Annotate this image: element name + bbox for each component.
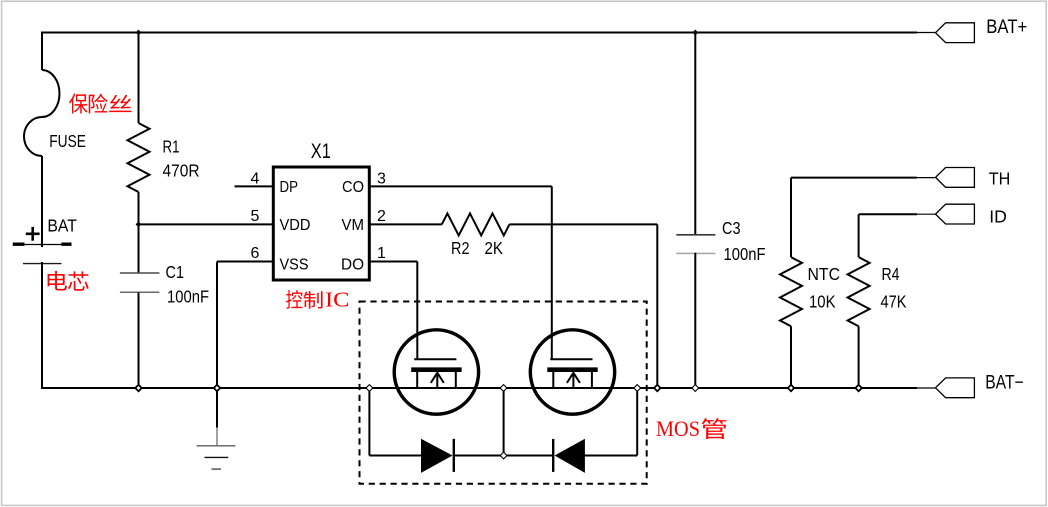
svg-text:BAT−: BAT− — [985, 373, 1024, 394]
node junction J4 — [135, 385, 141, 391]
svg-text:NTC: NTC — [808, 264, 841, 284]
capacitor C1 100nF — [120, 272, 159, 274]
svg-text:47K: 47K — [881, 292, 907, 312]
svg-text:ID: ID — [989, 207, 1007, 227]
label 保险丝 — [69, 93, 87, 113]
svg-text:IC: IC — [325, 288, 350, 312]
svg-text:2: 2 — [377, 208, 386, 225]
svg-text:DP: DP — [280, 179, 299, 196]
wire R1 top — [138, 33, 140, 124]
svg-text:X1: X1 — [311, 139, 331, 163]
wire BAT+ top rail — [42, 32, 917, 34]
wire diode row middle — [454, 455, 553, 457]
svg-text:C1: C1 — [166, 262, 185, 282]
label 控制IC — [286, 290, 302, 309]
svg-text:BAT: BAT — [47, 216, 77, 236]
wire VM net left — [369, 223, 442, 225]
wire fuse to battery — [41, 156, 43, 247]
node junction J9 — [366, 385, 373, 392]
svg-text:VM: VM — [342, 217, 365, 234]
wire VDD net — [139, 223, 273, 225]
svg-text:100nF: 100nF — [724, 244, 766, 264]
IC X1 (protection controller) — [273, 167, 369, 280]
wire BAT- bottom rail — [42, 387, 917, 389]
svg-text:3: 3 — [377, 171, 386, 188]
svg-text:R4: R4 — [882, 264, 900, 284]
resistor NTC 10K — [780, 257, 802, 326]
svg-text:BAT+: BAT+ — [986, 17, 1027, 38]
diode D1 — [421, 439, 453, 473]
ground — [197, 446, 236, 469]
wire CO net — [369, 185, 552, 187]
resistor R1 470R — [128, 123, 150, 192]
capacitor C3 100nF — [694, 33, 696, 235]
wire left drop to fuse — [41, 32, 43, 71]
wire VSS to ground — [216, 262, 218, 389]
svg-text:5: 5 — [251, 208, 260, 225]
wire DO net — [369, 261, 417, 263]
node junction J12 — [500, 452, 507, 459]
svg-text:2K: 2K — [485, 238, 504, 258]
node junction J11 — [634, 385, 641, 392]
transistor Q1 — [394, 330, 478, 414]
connector BAT- — [936, 378, 975, 398]
resistor R2 2K — [442, 213, 510, 235]
wire battery to bottom rail — [41, 262, 43, 389]
wire C1 to rail — [138, 293, 140, 389]
wire diode row right — [584, 455, 637, 457]
svg-text:R2: R2 — [451, 238, 470, 258]
svg-text:CO: CO — [342, 179, 364, 196]
node junction J8 — [855, 385, 861, 391]
svg-text:C3: C3 — [722, 218, 741, 238]
battery BAT — [13, 216, 77, 264]
svg-text:MOS: MOS — [656, 416, 700, 441]
svg-text:TH: TH — [989, 169, 1011, 189]
node junction J5 — [214, 385, 220, 391]
wire diode row left — [368, 388, 370, 456]
fuse FUSE — [24, 70, 59, 156]
connector TH — [936, 168, 975, 188]
node junction J7 — [788, 385, 794, 391]
node junction J3 — [136, 222, 142, 228]
node junction J1 — [136, 30, 142, 36]
svg-text:10K: 10K — [809, 292, 836, 312]
svg-text:R1: R1 — [163, 137, 180, 157]
node junction J6 — [654, 385, 660, 391]
svg-text:DO: DO — [341, 256, 364, 273]
connector ID — [936, 204, 975, 224]
node junction J13 — [692, 385, 699, 392]
svg-text:4: 4 — [251, 171, 260, 188]
svg-text:100nF: 100nF — [167, 287, 209, 307]
node junction J10 — [500, 385, 507, 392]
svg-text:1: 1 — [377, 245, 386, 262]
svg-text:VSS: VSS — [280, 256, 309, 273]
svg-text:470R: 470R — [163, 160, 200, 180]
MOS dashed box — [360, 302, 647, 484]
pin 4 DP — [235, 185, 273, 187]
wire ID net — [859, 213, 917, 215]
resistor R4 47K — [848, 257, 870, 326]
wire VM net right — [509, 223, 657, 225]
node junction J2 — [692, 30, 698, 36]
wire R1 to C1 — [138, 192, 140, 273]
svg-text:FUSE: FUSE — [49, 131, 86, 151]
transistor Q2 — [530, 330, 614, 414]
label 电芯 — [48, 271, 67, 291]
wire TH net — [791, 177, 917, 179]
svg-text:6: 6 — [251, 245, 260, 262]
wire ground stem — [216, 388, 218, 428]
pin 6 VSS — [217, 261, 272, 263]
svg-text:VDD: VDD — [280, 217, 311, 234]
diode D2 — [552, 439, 554, 472]
connector BAT+ — [936, 23, 975, 43]
